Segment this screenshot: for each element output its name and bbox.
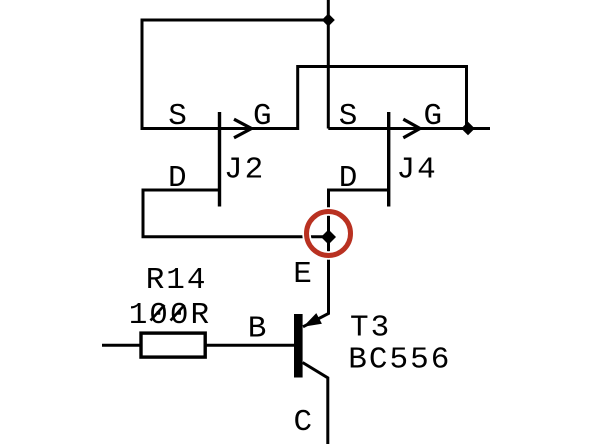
slash of first zero in 100R — [151, 305, 165, 321]
transistor T3 base bar — [294, 314, 303, 378]
svg-text:E: E — [293, 257, 314, 292]
wire: J4 drain down through junction to T3 emitter — [303, 190, 389, 327]
red highlight circle (with white halo) — [307, 212, 351, 256]
svg-text:B: B — [248, 312, 269, 347]
svg-text:100R: 100R — [129, 298, 211, 333]
node: emitter junction (circled) — [321, 230, 336, 245]
svg-text:S: S — [339, 99, 360, 134]
svg-text:T3: T3 — [350, 311, 391, 346]
wire: J2 source loop + S-row + J2 gate wire up-and-over to J4 gate — [142, 20, 467, 129]
svg-text:J4: J4 — [397, 153, 438, 188]
wire: top supply vertical into node — [327, 0, 330, 129]
svg-text:D: D — [168, 161, 189, 196]
wire: base lead through resistor — [102, 344, 294, 347]
wire: collector of T3 — [303, 363, 328, 444]
transistor J4 channel bar — [387, 112, 390, 207]
wire: J2 drain loop down to junction — [143, 190, 329, 237]
svg-text:G: G — [424, 99, 445, 134]
svg-text:D: D — [339, 161, 360, 196]
svg-text:R14: R14 — [146, 263, 208, 298]
gate arrow of J2 — [234, 119, 252, 138]
emitter arrow of T3 — [303, 313, 322, 327]
svg-text:S: S — [168, 99, 189, 134]
svg-text:J2: J2 — [224, 152, 265, 187]
transistor J2 channel bar — [218, 112, 221, 207]
svg-text:BC556: BC556 — [348, 343, 451, 378]
resistor R14 body — [141, 333, 205, 357]
gate arrow of J4 — [403, 119, 420, 138]
slash of second zero in 100R — [171, 305, 185, 321]
node: J4 gate junction — [461, 122, 475, 136]
wire: J4 source row and gate stub — [328, 127, 490, 130]
svg-text:G: G — [253, 99, 274, 134]
svg-text:C: C — [294, 405, 315, 440]
node: top junction — [322, 14, 335, 27]
